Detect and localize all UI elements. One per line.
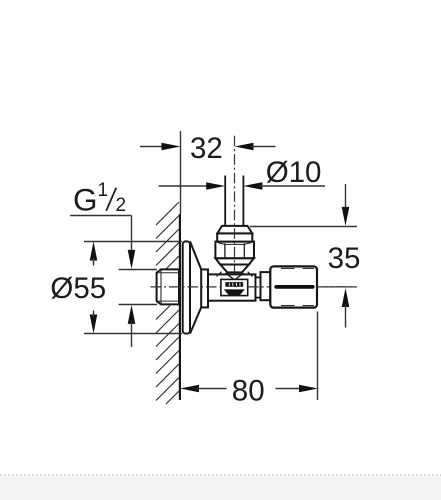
- inlet pipe: [225, 176, 243, 226]
- dim 32: [140, 132, 276, 165]
- wall hatching: [156, 202, 179, 404]
- V wedge on body top: [226, 273, 244, 279]
- outlet neck: [256, 277, 261, 297]
- handle grip band: [274, 285, 314, 289]
- horizontal center line: [151, 286, 353, 288]
- svg-text:35: 35: [328, 242, 361, 275]
- dim G1/2 leader arrows: [119, 216, 157, 348]
- wall face line: [179, 131, 182, 400]
- thread G1/2 tail: [157, 269, 179, 304]
- compression nut lower taper: [215, 258, 254, 272]
- svg-text:Ø10: Ø10: [266, 156, 322, 189]
- svg-text:32: 32: [190, 132, 223, 165]
- vertical center line: [234, 136, 236, 272]
- handle skirt: [261, 272, 271, 300]
- dim diameter 10: [159, 156, 326, 190]
- svg-text:G: G: [73, 182, 98, 218]
- svg-text:1: 1: [98, 180, 109, 201]
- escutcheon flange: [183, 241, 208, 333]
- compression hex nut: [215, 242, 254, 259]
- GROHE logo box: [221, 279, 248, 295]
- footer divider dotted: [0, 474, 441, 476]
- dim diameter 55: [50, 242, 182, 334]
- handle knob: [270, 266, 317, 307]
- svg-text:80: 80: [232, 375, 265, 408]
- svg-text:Ø55: Ø55: [50, 272, 106, 305]
- label G 1/2: [70, 180, 131, 218]
- pipe collar: [217, 226, 252, 234]
- valve body: [208, 274, 256, 300]
- svg-text:2: 2: [116, 195, 127, 216]
- footer gray band: [0, 476, 441, 500]
- dim 80: [180, 312, 318, 408]
- dim 35: [250, 184, 360, 328]
- body corner ticks: [217, 272, 253, 277]
- olive sleeve: [217, 233, 252, 241]
